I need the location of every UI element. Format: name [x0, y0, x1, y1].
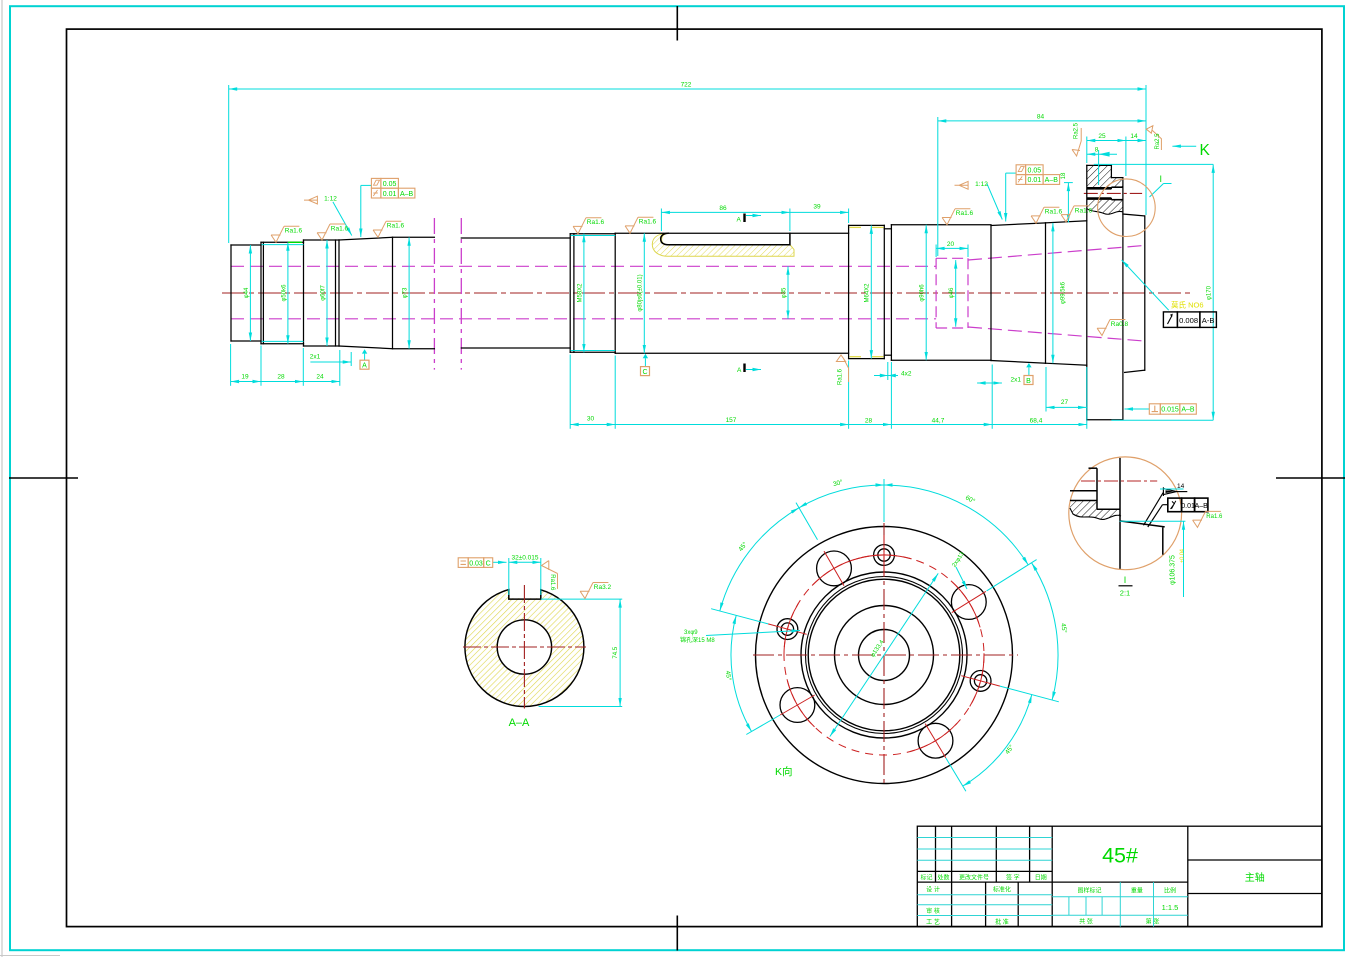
flange bottom — [1087, 419, 1123, 421]
taper journal B 1:12 — [1046, 221, 1087, 223]
svg-text:39: 39 — [813, 204, 821, 211]
K red bolt circle dashed — [784, 555, 984, 755]
A-A red centerlines — [463, 646, 586, 648]
svg-text:A–B: A–B — [1045, 177, 1059, 184]
svg-text:Ra1.6: Ra1.6 — [387, 223, 405, 230]
svg-text:φ170: φ170 — [1206, 285, 1212, 300]
svg-text:签 字: 签 字 — [1006, 874, 1020, 882]
perpendicularity box 0.015 A-B — [1149, 404, 1196, 414]
diameter dims verticals — [249, 245, 251, 341]
bolt hole thick edges — [1087, 187, 1112, 190]
svg-text:86: 86 — [719, 205, 727, 212]
svg-text:φ60f7: φ60f7 — [320, 285, 326, 301]
svg-text:1:12: 1:12 — [324, 196, 337, 203]
A-A surface check at slot (rotated) — [542, 561, 558, 591]
svg-text:共 张: 共 张 — [1079, 918, 1093, 926]
svg-text:27: 27 — [1061, 399, 1069, 406]
svg-text:Ra2.5: Ra2.5 — [1155, 133, 1161, 150]
A-A parallelism box = 0.03 C — [458, 558, 493, 568]
svg-text:2x1: 2x1 — [1011, 377, 1022, 384]
hub bottom edge — [1125, 370, 1145, 372]
A-A bore circle — [497, 620, 551, 674]
svg-text:莫氏 NO6: 莫氏 NO6 — [1171, 300, 1204, 310]
dim 20 cross hole — [936, 247, 968, 249]
bolt hole H6 (32 deg) — [951, 585, 986, 620]
section 1 phi44 — [230, 245, 232, 341]
svg-text:Ra1.6: Ra1.6 — [1075, 207, 1093, 214]
shaft outline (black) — [231, 165, 1145, 419]
orange detail circle I on flange corner — [1098, 179, 1156, 237]
bolt hole H4 (120 deg) — [817, 551, 852, 586]
section 11 phi90 — [891, 224, 991, 226]
svg-text:2:1: 2:1 — [1120, 589, 1130, 598]
svg-text:28: 28 — [865, 418, 873, 425]
rotated surface checks near flange top — [1072, 126, 1161, 156]
section 8 phi80 keyway section — [615, 232, 848, 234]
datum flag A — [360, 349, 369, 369]
svg-text:2x1: 2x1 — [310, 354, 321, 361]
bolt hole H2 inner — [781, 623, 793, 635]
dim 25 / 14 — [1087, 140, 1126, 142]
svg-text:0.01: 0.01 — [383, 191, 397, 198]
taper symbol right 1:12 — [955, 181, 969, 189]
svg-text:45°: 45° — [724, 670, 733, 681]
flange front face — [1086, 165, 1088, 419]
svg-text:722: 722 — [681, 82, 692, 89]
centering tick right — [1276, 477, 1345, 479]
dim 86 / 39 keyway — [661, 211, 790, 213]
dim 722 overall — [229, 88, 1146, 90]
section 3 phi60 — [303, 240, 305, 346]
svg-text:68,4: 68,4 — [1030, 418, 1043, 425]
svg-text:0.03: 0.03 — [469, 560, 483, 567]
detail black dim + box — [1144, 487, 1188, 527]
green dimension texts main view — [241, 82, 1138, 425]
yellow thread-relief marks on section M64 — [850, 227, 884, 356]
dim 8 — [1087, 153, 1117, 155]
svg-text:φ35: φ35 — [781, 287, 787, 298]
section A-A cut arrows — [746, 215, 761, 217]
svg-text:45#: 45# — [1102, 844, 1138, 868]
tolerance box flatness/runout left — [371, 178, 415, 198]
svg-text:0.015: 0.015 — [1161, 407, 1179, 414]
leader box1 — [361, 184, 372, 186]
K red arcs on bolt circle — [856, 555, 911, 559]
svg-text:Ra0.8: Ra0.8 — [1111, 321, 1129, 328]
section 6 after break — [461, 237, 570, 239]
svg-text:图样标记: 图样标记 — [1077, 887, 1101, 895]
svg-text:φ106.375: φ106.375 — [1170, 555, 1177, 585]
centering tick bottom — [676, 916, 678, 951]
bolt hole H1 inner — [878, 549, 890, 561]
svg-text:Ra1.6: Ra1.6 — [285, 228, 303, 235]
svg-text:A: A — [737, 367, 742, 374]
centering tick left — [9, 477, 78, 479]
svg-text:标准化: 标准化 — [993, 886, 1011, 894]
magenta hidden bore line bottom — [231, 318, 936, 320]
svg-text:C: C — [642, 369, 647, 376]
detail surface check — [1193, 511, 1223, 527]
flange local section: hatch above hole — [1087, 165, 1123, 187]
leader runout 0.008 box — [1122, 260, 1169, 310]
svg-text:0.05: 0.05 — [1027, 167, 1041, 174]
detail circle boundary — [1069, 457, 1182, 570]
svg-text:32±0.015: 32±0.015 — [511, 555, 538, 562]
K view labels/leaders — [706, 631, 800, 636]
groove dim 4x2 — [874, 375, 898, 377]
flange bolt-hole red centerline — [1084, 192, 1142, 194]
K red centerlines — [753, 654, 1018, 656]
svg-text:Ra1.6: Ra1.6 — [956, 210, 974, 217]
svg-text:44,7: 44,7 — [932, 418, 945, 425]
section 2 phi50 — [260, 242, 262, 343]
svg-text:φ80js6(±0.01): φ80js6(±0.01) — [638, 274, 644, 311]
svg-text:A: A — [362, 363, 367, 370]
svg-text:20: 20 — [947, 241, 955, 248]
dims 19 28 24 — [231, 381, 261, 383]
dim 2x1 right chamfer — [977, 382, 1002, 384]
svg-text:0.008: 0.008 — [1179, 316, 1198, 325]
bolt hole H3 (-15 deg, tapped) — [970, 671, 991, 692]
svg-text:25: 25 — [1098, 133, 1106, 140]
svg-text:φ90h6: φ90h6 — [920, 284, 926, 302]
svg-text:φ50k6: φ50k6 — [281, 284, 287, 302]
svg-text:主轴: 主轴 — [1245, 871, 1265, 884]
A-A keyway notch white cutout — [510, 560, 540, 598]
svg-text:日期: 日期 — [1035, 874, 1047, 882]
svg-text:Ra1.6: Ra1.6 — [1045, 209, 1063, 216]
hub top edge — [1123, 214, 1144, 216]
svg-text:157: 157 — [726, 417, 737, 424]
runout box 0.008 A-B (black) — [1163, 312, 1216, 328]
phi170 dim — [1094, 163, 1213, 165]
taper journal A 1:12 — [991, 223, 1046, 226]
svg-text:M64X2: M64X2 — [865, 283, 871, 303]
svg-text:1:1.5: 1:1.5 — [1162, 903, 1179, 912]
A-A surface check Ra3.2 — [580, 583, 611, 599]
svg-text:8: 8 — [1095, 147, 1099, 154]
section cut tick marks A-A — [743, 214, 745, 223]
A-A keyway notch outline — [509, 590, 541, 600]
A-A outer circle — [465, 588, 584, 707]
svg-text:Ra3.2: Ra3.2 — [594, 584, 612, 591]
svg-text:处数: 处数 — [937, 874, 949, 882]
thread minor dia lines S2 — [262, 244, 304, 246]
keyway slot outline — [661, 233, 790, 245]
svg-text:+0.04: +0.04 — [1179, 549, 1185, 563]
svg-text:Ra1.6: Ra1.6 — [838, 368, 844, 385]
svg-text:M58X2: M58X2 — [577, 283, 583, 303]
magenta break line left — [433, 218, 435, 370]
dim 27 — [1046, 406, 1087, 408]
svg-text:工 艺: 工 艺 — [926, 918, 940, 926]
svg-text:设 计: 设 计 — [926, 886, 940, 894]
bolt hole H3 inner — [974, 675, 986, 687]
relief groove — [884, 228, 891, 230]
A-A dims — [493, 558, 623, 707]
flange back face — [1122, 178, 1124, 420]
svg-text:批 准: 批 准 — [995, 918, 1009, 926]
leader detail I — [1150, 184, 1164, 198]
svg-text:K向: K向 — [775, 765, 793, 778]
svg-text:Ra1.6: Ra1.6 — [1206, 514, 1223, 520]
svg-text:Ra1.6: Ra1.6 — [587, 219, 605, 226]
rotated green diameter labels — [244, 172, 1212, 312]
svg-text:19: 19 — [241, 373, 249, 380]
surface finish checks (orange) with green Ra labels — [271, 226, 302, 242]
section 5 phi73 — [393, 236, 435, 238]
detail black lines — [1070, 458, 1165, 569]
leader box2 — [1006, 172, 1016, 174]
K view arrow — [1172, 145, 1196, 147]
section 7 M58 thread — [569, 234, 571, 353]
svg-text:74.5: 74.5 — [613, 646, 619, 658]
wavy break line — [1087, 209, 1123, 215]
taper symbol left 1:12 — [304, 196, 317, 204]
svg-text:Ra1.6: Ra1.6 — [331, 225, 349, 232]
leader 1:12 right — [987, 184, 1002, 220]
bolt hole H1 (90 deg, tapped) — [874, 545, 895, 566]
svg-text:3xφ9: 3xφ9 — [684, 630, 698, 636]
magenta break line right — [460, 218, 462, 370]
page edge artifacts — [1, 0, 3, 957]
svg-text:标记: 标记 — [920, 874, 932, 882]
hatch below hole with wavy break boundary — [1087, 200, 1123, 214]
bottom dim row 30 157 28 44.7 68.4 — [570, 424, 615, 426]
svg-text:A-B: A-B — [1202, 316, 1215, 325]
tolerance box flatness/runout right — [1016, 165, 1060, 185]
datum flag C — [641, 354, 650, 376]
keyway yellow section hatch band — [652, 233, 794, 256]
thread minor dia lines S7 — [571, 235, 616, 237]
detail cyan dim phi106.375 — [1120, 489, 1186, 597]
hub end face — [1144, 216, 1146, 370]
svg-text:K: K — [1200, 142, 1211, 159]
svg-text:B: B — [1026, 378, 1031, 385]
svg-text:重量: 重量 — [1131, 887, 1143, 895]
svg-text:φ44: φ44 — [244, 287, 250, 298]
svg-text:0.01: 0.01 — [1181, 503, 1195, 510]
detail red centerline — [1081, 480, 1157, 482]
svg-text:0.01: 0.01 — [1027, 177, 1041, 184]
svg-text:A–B: A–B — [400, 191, 414, 198]
svg-text:审 核: 审 核 — [926, 907, 940, 915]
detail hatch — [1070, 501, 1121, 520]
A-A hatched ring — [465, 588, 584, 707]
bolt hole H5 (210 deg) — [780, 688, 815, 723]
flange rim top — [1087, 164, 1112, 166]
magenta hidden bore line top — [231, 265, 936, 267]
svg-text:A: A — [737, 217, 742, 224]
bolt hole H7 (-59 deg) — [918, 723, 953, 758]
svg-text:C: C — [486, 560, 491, 567]
svg-text:锦孔深15 M8: 锦孔深15 M8 — [680, 636, 715, 644]
svg-text:28: 28 — [277, 373, 285, 380]
svg-text:I: I — [1124, 575, 1127, 585]
svg-text:Ra1.6: Ra1.6 — [639, 219, 657, 226]
magenta hidden taper bore top — [968, 246, 1144, 261]
dim 2x1 left chamfer — [310, 361, 351, 363]
svg-text:更改文件号: 更改文件号 — [959, 874, 989, 882]
svg-text:比例: 比例 — [1164, 887, 1176, 895]
leader perpendicularity box — [1125, 408, 1150, 410]
magenta hidden rect (cross hole) — [936, 258, 968, 328]
svg-text:84: 84 — [1037, 114, 1045, 121]
svg-text:1:12: 1:12 — [975, 181, 988, 188]
svg-text:φ73: φ73 — [403, 287, 409, 298]
section 9 M64 thread — [848, 225, 850, 358]
K cyan radial extension lines — [883, 479, 885, 522]
K cyan angular dimension arcs — [799, 485, 884, 508]
svg-text:A–B: A–B — [1181, 407, 1195, 414]
svg-text:4x2: 4x2 — [901, 370, 912, 377]
magenta hidden taper bore bottom — [968, 327, 1144, 341]
K bolt-circle diameter dim — [830, 573, 938, 736]
leader 1:12 left — [333, 202, 352, 236]
svg-text:Ra1.6: Ra1.6 — [549, 574, 555, 591]
svg-text:45°: 45° — [1059, 623, 1068, 634]
svg-text:18: 18 — [1061, 172, 1067, 179]
datum flag B — [1024, 363, 1033, 385]
svg-text:24: 24 — [316, 373, 324, 380]
centering tick top — [676, 6, 678, 41]
K red hole centerlines — [883, 535, 885, 575]
K black circles — [756, 527, 1013, 784]
svg-text:14: 14 — [1130, 133, 1138, 140]
svg-text:φ99,5k6: φ99,5k6 — [1061, 281, 1067, 304]
svg-text:Ra2.5: Ra2.5 — [1073, 122, 1079, 139]
taper 1:12 section — [339, 237, 393, 240]
svg-text:第 张: 第 张 — [1146, 918, 1160, 926]
rotated surface check below thread section — [836, 355, 848, 382]
svg-text:I: I — [1160, 174, 1163, 184]
svg-text:A–A: A–A — [509, 717, 530, 729]
svg-text:30: 30 — [587, 416, 595, 423]
main shaft red centerline — [222, 292, 1194, 294]
svg-text:φ46: φ46 — [949, 287, 955, 298]
dim 18 right — [1067, 183, 1069, 223]
svg-text:0.05: 0.05 — [383, 181, 397, 188]
bolt hole H2 (165 deg, tapped) — [777, 619, 798, 640]
dim 84 — [938, 120, 1146, 122]
svg-text:A–B: A–B — [1195, 503, 1209, 510]
